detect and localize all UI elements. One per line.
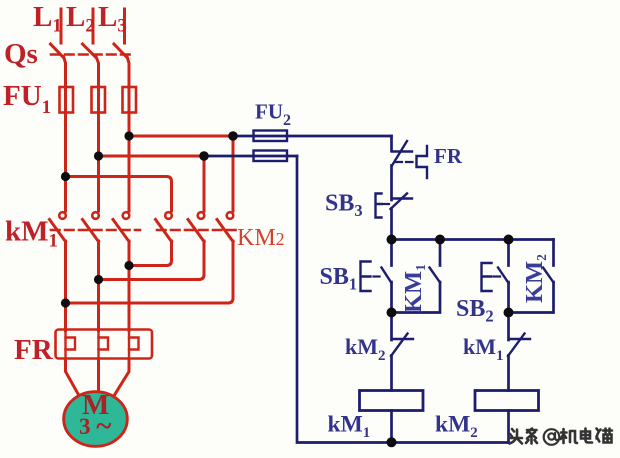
svg-text:FR: FR — [434, 144, 463, 168]
relay FR trip linkage dashed — [396, 161, 415, 163]
pushbutton SB3 (NC) blade — [391, 194, 408, 210]
pushbutton SB3 linkage dash — [383, 203, 389, 205]
wire SB1 to node N2 — [390, 282, 393, 313]
watermark character tou — [509, 429, 522, 444]
pushbutton SB2 (NO) blade — [498, 268, 509, 284]
wire node U to fuse FU2-1 — [236, 135, 392, 138]
contact KM2-a terminal circle — [165, 212, 172, 219]
wire phase B vertical from QS to contact KM1-b — [96, 57, 99, 212]
interlock contact kM2 (NC) blade — [391, 334, 408, 357]
interlock contact kM1 (NC) seat bar — [509, 338, 530, 340]
wire kM1 contact to coil KM2 — [507, 356, 510, 391]
wire KM2-c output joining phase A (to node W1) — [66, 241, 234, 303]
pushbutton SB1 linkage dash — [374, 275, 380, 277]
svg-text:Qs: Qs — [4, 38, 38, 70]
wire KM2-b output joining phase B (to node W2) — [99, 241, 205, 280]
svg-text:KM2: KM2 — [521, 254, 549, 303]
fuse FU1-2 wire through — [97, 87, 100, 110]
wire KM1 aux to node N2 — [392, 282, 441, 313]
contact KM1 auxiliary (NO self-hold) blade — [430, 268, 441, 283]
pushbutton SB2 linkage dash — [494, 275, 500, 277]
fuse FU1-1 — [60, 87, 74, 113]
wire FU2-1 corner down to FR contact — [390, 136, 393, 151]
contact KM1 linkage dashed — [51, 229, 140, 232]
relay contact FR (NC) seat bar — [392, 150, 412, 152]
watermark character mao — [597, 429, 613, 443]
wire KM1 aux upper terminal — [439, 240, 442, 266]
wire KM2 aux to node N3 — [509, 282, 554, 313]
watermark character ji — [561, 429, 577, 443]
junction node on phase A tap — [61, 172, 70, 181]
contact KM2-c terminal circle — [227, 212, 234, 219]
wire node N3 to interlock kM1 — [507, 313, 510, 341]
wire KM2-a output joining phase C (to node W3) — [129, 241, 172, 266]
junction node N1 top of SB1 branch — [387, 235, 397, 245]
junction node W1 phase A merge — [61, 298, 70, 307]
pushbutton SB3 actuator bracket — [376, 194, 382, 218]
svg-text:FR: FR — [14, 334, 54, 366]
contact KM1-a blade — [50, 220, 66, 242]
contact KM2-a blade — [156, 220, 172, 242]
wire tap phase B to FU2 bottom (node V) — [99, 155, 205, 158]
wire node N2 to interlock kM2 — [390, 313, 393, 341]
wire FR to motor terminal W — [114, 360, 130, 397]
wire kM2 contact to coil KM1 — [390, 356, 393, 391]
relay FR thermal bump symbol — [417, 146, 428, 178]
junction node top of SB2 branch — [504, 235, 514, 245]
wire phase A output down to FR — [64, 241, 67, 331]
fuse FU1-2 — [92, 87, 106, 113]
switch QS pole 3 blade — [114, 44, 127, 58]
svg-text:3 ~: 3 ~ — [79, 410, 111, 442]
wire FR to motor terminal U — [66, 360, 80, 397]
wire FR contact to SB3 — [390, 166, 393, 201]
wire phase A vertical from QS to contact KM1-a — [64, 57, 66, 212]
wire tap phase C to FU2 top (node U) — [129, 135, 233, 138]
fuse FU2-1 — [254, 131, 288, 142]
contact KM2-b blade — [188, 220, 204, 242]
interlock contact kM1 (NC) blade — [508, 334, 525, 357]
contact KM2 auxiliary (NO self-hold) blade — [543, 268, 554, 283]
wire KM2 aux upper terminal — [552, 240, 555, 266]
wire phase C output down to FR — [128, 241, 131, 331]
wire drop to contact KM2-c input — [232, 136, 235, 211]
svg-text:KM1: KM1 — [400, 264, 428, 313]
contact KM1-c terminal circle — [123, 212, 130, 219]
junction node V (red to blue, FU2 bottom) — [199, 151, 209, 161]
node L2 supply terminal — [92, 9, 95, 43]
junction node W3 phase C merge — [124, 261, 133, 270]
contact KM2-b terminal circle — [198, 212, 205, 219]
FR heater element 1 — [66, 331, 76, 359]
contact KM2-c blade — [217, 220, 233, 242]
FR heater element 2 — [99, 331, 109, 359]
junction node W2 phase B merge — [94, 275, 103, 284]
node L3 supply terminal — [123, 9, 126, 43]
wire left control rail down and bottom rail — [297, 156, 509, 443]
wire SB2 upper terminal — [507, 240, 510, 266]
junction node coil KM1 on bottom rail — [387, 437, 397, 447]
junction node top of KM1 aux branch — [435, 235, 445, 245]
wire FR to motor terminal V — [97, 360, 100, 393]
node L1 supply terminal — [60, 9, 63, 43]
contact KM1-b terminal circle — [92, 212, 99, 219]
wire SB1 upper terminal — [390, 240, 393, 266]
wire coil KM1 to bottom rail — [390, 411, 393, 443]
junction node U (red to blue, FU2 top) — [228, 131, 238, 141]
junction node on phase C tap — [124, 131, 133, 140]
switch QS linkage dashed — [51, 53, 133, 56]
motor M 3~ body — [64, 392, 128, 447]
junction node N3 below SB2 — [504, 308, 514, 318]
switch QS pole 2 blade — [83, 44, 97, 58]
svg-text:KM2: KM2 — [237, 225, 285, 251]
contact KM2 linkage dashed — [157, 229, 238, 232]
wire top control line N1 to KM2 aux branch — [392, 238, 554, 241]
junction node on phase B tap — [94, 151, 103, 160]
wire SB3 to node N1 — [390, 209, 393, 240]
wire phase C vertical from QS to contact KM1-c — [127, 57, 129, 212]
fuse FU1-1 wire through — [64, 87, 67, 110]
pushbutton SB3 (NC) seat bar — [392, 197, 412, 199]
fuse FU1-3 — [123, 87, 137, 113]
wire SB2 to node N3 — [507, 282, 510, 313]
thermal relay FR box — [56, 330, 153, 359]
relay contact FR (NC) blade — [392, 141, 407, 166]
FR heater element 3 — [129, 331, 139, 359]
junction node N2 below SB1 — [387, 308, 397, 318]
contact KM1-b blade — [83, 220, 99, 242]
pushbutton SB1 actuator bracket — [361, 262, 371, 292]
watermark character dian — [581, 429, 592, 443]
wire coil KM2 to bottom rail — [507, 411, 510, 443]
wire node V to fuse FU2-2 — [207, 155, 297, 158]
pushbutton SB2 actuator bracket — [482, 263, 492, 291]
watermark character tiao — [526, 429, 537, 444]
coil KM2 — [475, 391, 539, 411]
wire tap phase A to contact KM2-a input — [66, 177, 172, 212]
fuse FU2-2 — [254, 151, 288, 162]
coil KM1 — [360, 391, 424, 411]
contact KM1-a terminal circle — [59, 212, 66, 219]
pushbutton SB1 (NO) blade — [382, 268, 392, 284]
fuse FU1-3 wire through — [128, 87, 131, 110]
wire drop to contact KM2-b input — [203, 156, 206, 211]
watermark at-sign — [544, 429, 560, 445]
switch QS pole 1 blade — [51, 44, 64, 58]
wire phase B output down to FR — [97, 241, 100, 331]
interlock contact kM2 (NC) seat bar — [392, 338, 413, 340]
contact KM1-c blade — [113, 220, 129, 242]
